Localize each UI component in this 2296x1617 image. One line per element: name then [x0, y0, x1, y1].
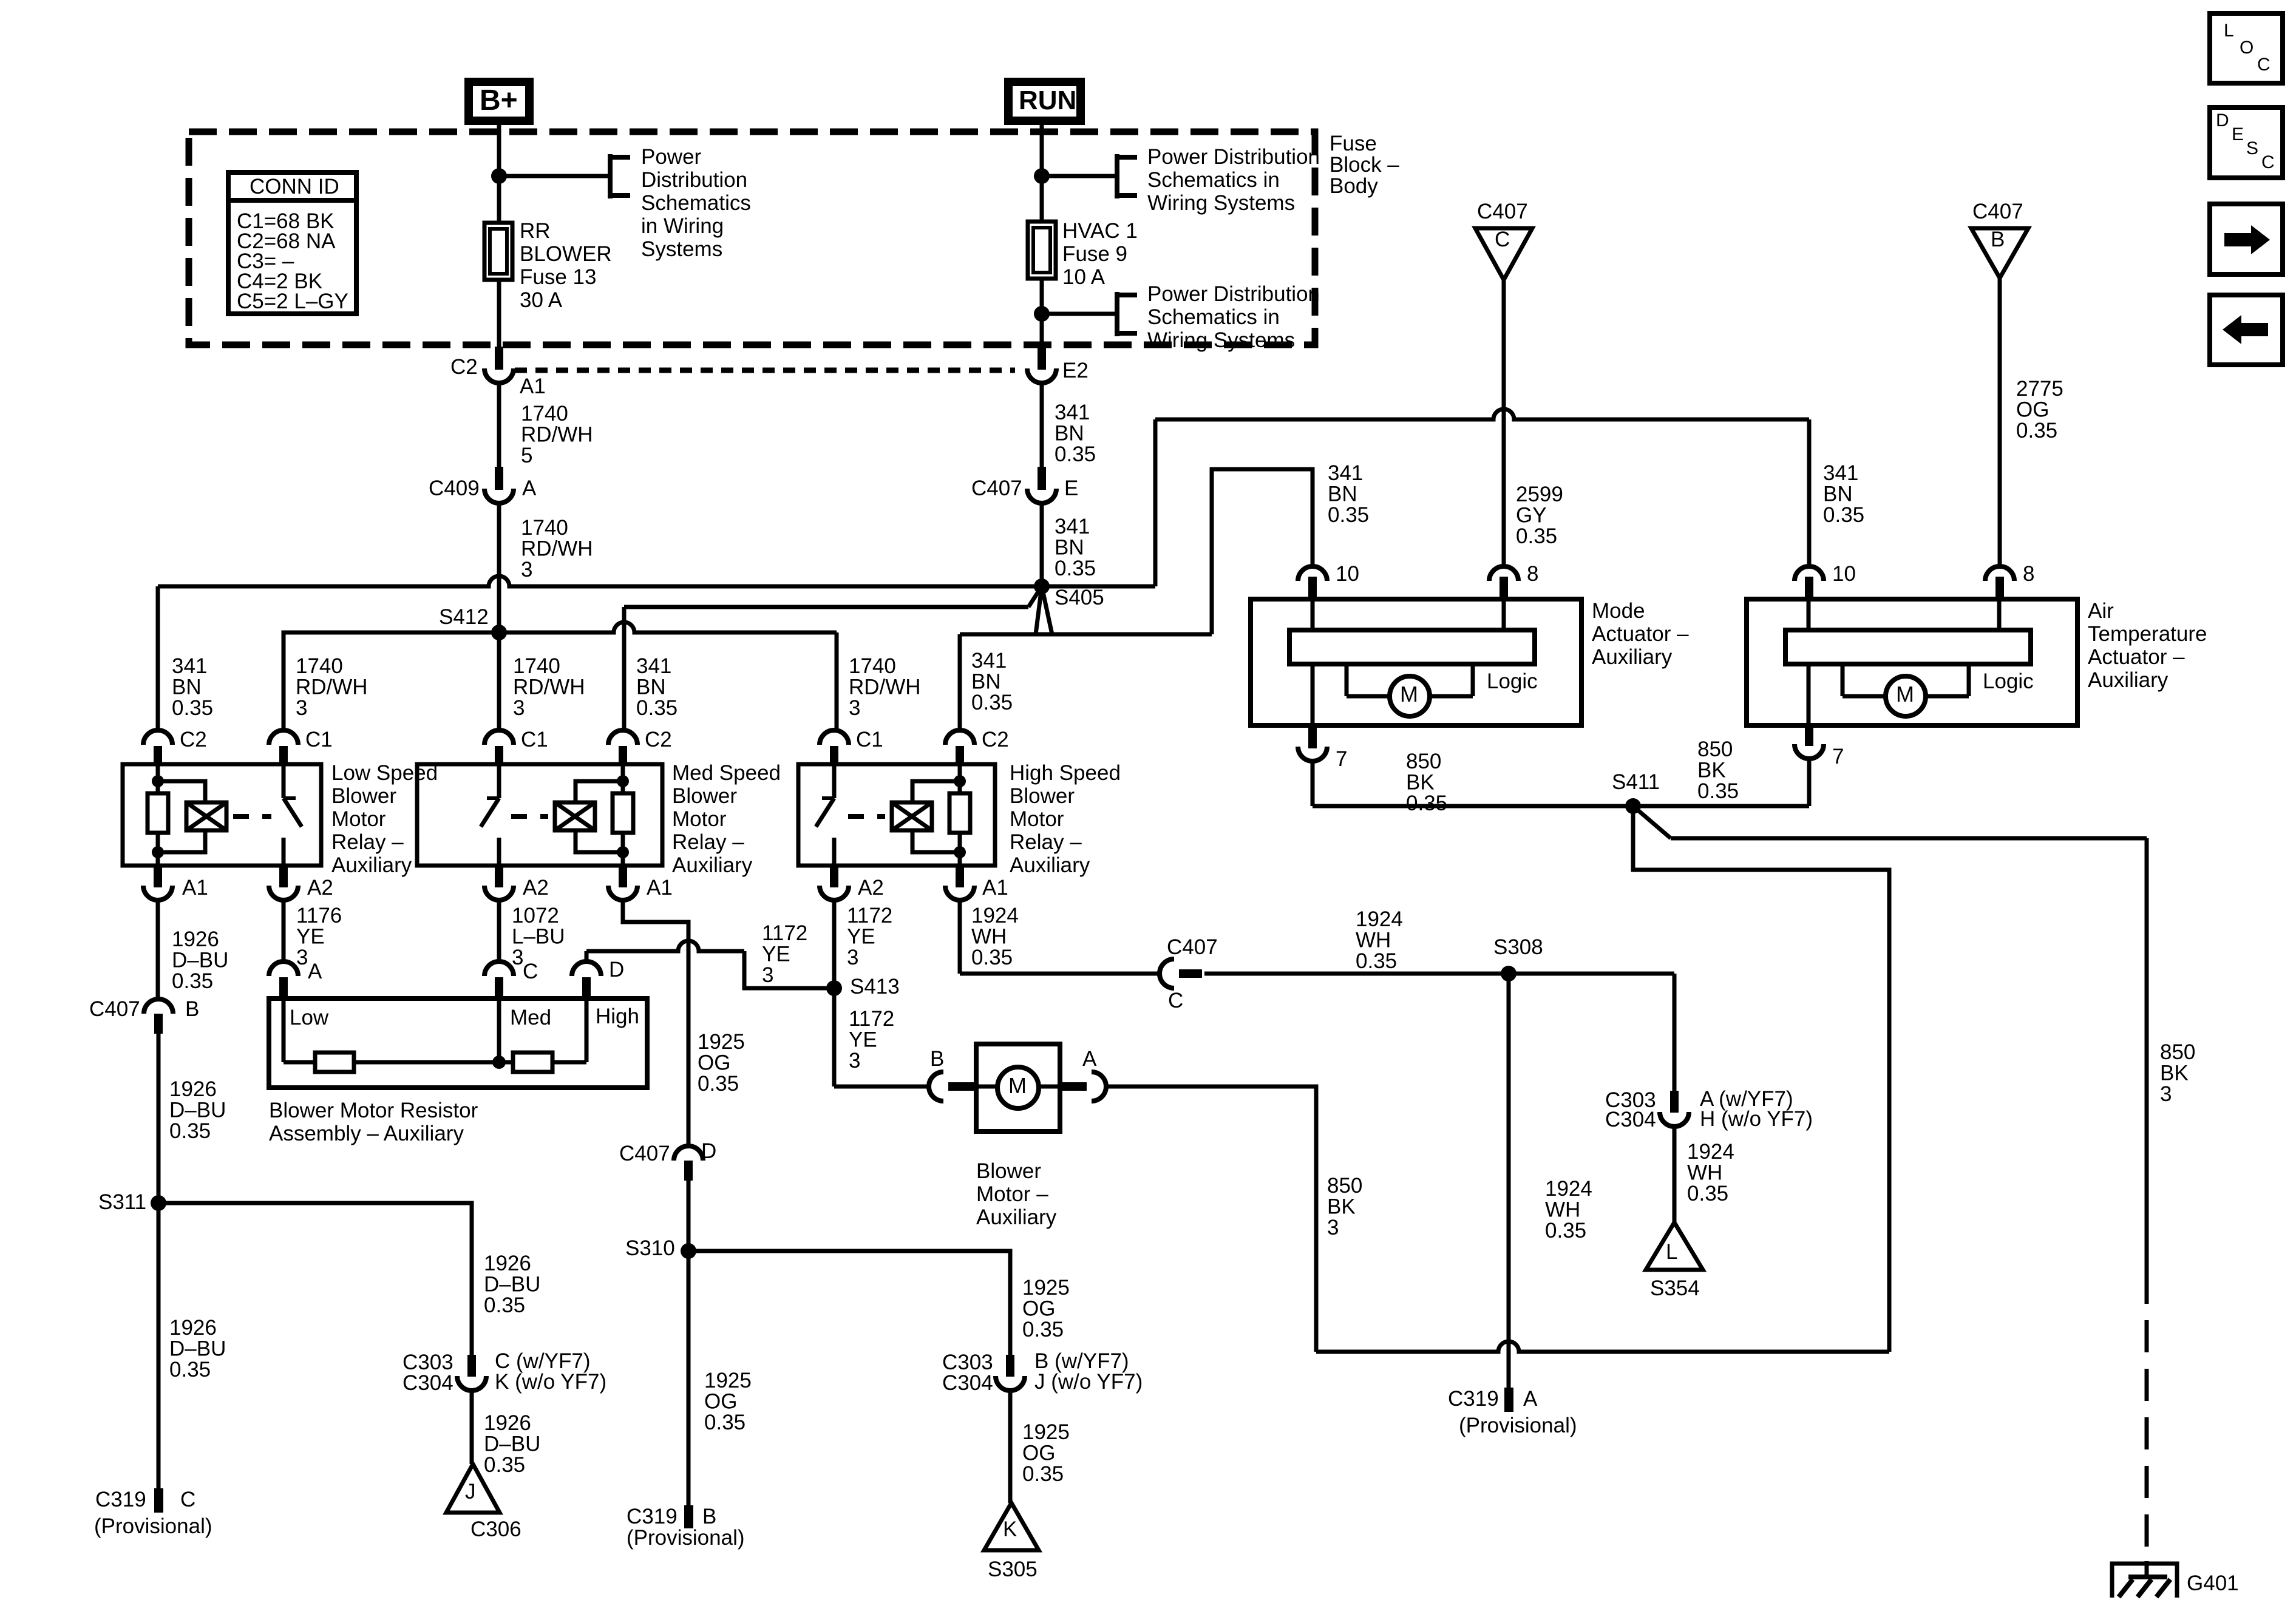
- svg-text:Air: Air: [2088, 599, 2114, 623]
- svg-text:0.35: 0.35: [1823, 503, 1864, 527]
- svg-text:C407: C407: [1167, 935, 1218, 959]
- svg-text:RD/WH: RD/WH: [296, 676, 368, 699]
- svg-text:S354: S354: [1650, 1276, 1700, 1300]
- svg-text:L: L: [2224, 21, 2234, 41]
- wire riser to y691: [1153, 419, 1158, 586]
- svg-text:Power Distribution: Power Distribution: [1147, 282, 1320, 306]
- svg-text:Power Distribution: Power Distribution: [1147, 145, 1320, 169]
- svg-text:D: D: [609, 958, 624, 981]
- junction on B+ wire: [491, 168, 507, 184]
- svg-text:HVAC 1: HVAC 1: [1062, 219, 1138, 243]
- svg-text:0.35: 0.35: [169, 1119, 211, 1143]
- svg-text:3: 3: [849, 696, 860, 720]
- wire C407D to S310: [687, 1180, 691, 1251]
- svg-text:S413: S413: [850, 975, 900, 998]
- svg-text:0.35: 0.35: [2016, 419, 2057, 442]
- splice ref triangle J: [446, 1464, 500, 1513]
- svg-text:GY: GY: [1516, 504, 1547, 527]
- wire 341 BN 0.35 E2 to C407E: [1040, 383, 1044, 469]
- relay K1 coil element: [186, 802, 226, 830]
- svg-text:0.35: 0.35: [1356, 949, 1397, 973]
- svg-text:C: C: [523, 960, 538, 983]
- svg-text:Temperature: Temperature: [2088, 622, 2207, 646]
- svg-text:Auxiliary: Auxiliary: [331, 853, 412, 877]
- svg-text:7: 7: [1336, 747, 1347, 771]
- svg-text:Blower: Blower: [672, 784, 737, 808]
- svg-text:0.35: 0.35: [1687, 1182, 1728, 1205]
- svg-text:1926: 1926: [169, 1077, 217, 1101]
- svg-text:D–BU: D–BU: [169, 1099, 226, 1122]
- svg-text:OG: OG: [1022, 1297, 1055, 1321]
- connector C2 pin A1: [495, 347, 503, 370]
- relay K3 top connector C1: [820, 730, 849, 745]
- svg-text:A: A: [522, 476, 537, 500]
- svg-text:Actuator –: Actuator –: [1592, 622, 1689, 646]
- svg-text:RR: RR: [520, 219, 551, 243]
- svg-text:Blower Motor Resistor: Blower Motor Resistor: [269, 1099, 478, 1122]
- svg-text:341: 341: [1328, 461, 1363, 485]
- blower motor connector A: [1059, 1082, 1087, 1091]
- wire S308 down to C319 A: [1507, 974, 1511, 1388]
- svg-text:Med: Med: [510, 1006, 551, 1029]
- relay K1 bottom connector A1: [154, 866, 162, 887]
- svg-text:C407: C407: [1972, 200, 2023, 223]
- svg-text:C: C: [180, 1488, 195, 1511]
- svg-text:1924: 1924: [1545, 1177, 1592, 1201]
- wire 850 BK 3 dashed section: [2145, 1272, 2149, 1561]
- svg-text:Fuse: Fuse: [1330, 132, 1377, 155]
- relay K1 Low Speed Blower Motor Relay box: [123, 764, 321, 866]
- svg-text:850: 850: [1697, 737, 1733, 761]
- wire S310 down to C319 B: [687, 1251, 691, 1505]
- svg-text:D–BU: D–BU: [484, 1432, 540, 1456]
- relay K2 coil element: [555, 802, 595, 830]
- wire C407C to S308: [1204, 972, 1674, 976]
- svg-text:341: 341: [971, 649, 1007, 673]
- svg-text:Assembly – Auxiliary: Assembly – Auxiliary: [269, 1122, 464, 1145]
- svg-text:3: 3: [513, 696, 525, 720]
- svg-text:C: C: [2261, 152, 2275, 172]
- svg-text:C319: C319: [95, 1488, 146, 1511]
- relay K3 High Speed Blower Motor Relay box: [798, 764, 995, 866]
- relay K2 bottom connector A2: [495, 866, 503, 887]
- legend LOC box: [2210, 13, 2283, 83]
- svg-text:OG: OG: [2016, 398, 2049, 422]
- wire branch to power distribution ref 1: [499, 174, 610, 178]
- wire 341 BN to Low C2: [156, 586, 160, 731]
- wire down to High C2: [958, 634, 962, 731]
- air temp actuator pin 8 connector: [1985, 566, 2014, 581]
- blower motor connector B: [929, 1072, 943, 1101]
- wire S311 right to C303 C/K: [158, 1203, 472, 1356]
- splice ref triangle L: [1646, 1222, 1703, 1270]
- blower motor resistor assembly box: [269, 998, 647, 1088]
- svg-text:10: 10: [1336, 562, 1359, 586]
- wire fuse9 to E2 connector: [1040, 278, 1044, 351]
- wire S412 down to Med C1: [497, 632, 501, 731]
- svg-text:C: C: [2257, 55, 2271, 75]
- resistor tap connector D: [572, 961, 601, 976]
- wire 341 BN down to AirTemp pin10: [1807, 419, 1812, 568]
- svg-text:C407: C407: [619, 1142, 670, 1165]
- junction on RUN wire upper: [1034, 168, 1050, 184]
- relay K1 bottom connector A2: [279, 866, 288, 887]
- legend next arrow box: [2210, 204, 2283, 274]
- connector C407 pin E: [1038, 467, 1046, 490]
- svg-text:Motor –: Motor –: [976, 1182, 1048, 1206]
- svg-text:Motor: Motor: [331, 807, 386, 831]
- svg-text:Auxiliary: Auxiliary: [1592, 645, 1673, 669]
- relay K2 internal junction bottom: [617, 846, 629, 858]
- svg-text:RD/WH: RD/WH: [849, 676, 921, 699]
- svg-text:C1: C1: [521, 728, 548, 751]
- svg-text:1925: 1925: [704, 1369, 752, 1392]
- svg-text:341: 341: [636, 654, 671, 678]
- svg-text:1740: 1740: [296, 654, 343, 678]
- mode actuator box with motor and logic: [1251, 599, 1581, 725]
- wire S308 corner down to C303 A/H: [1673, 974, 1677, 1092]
- connector ref triangle C407-B: [1971, 228, 2028, 278]
- relay K1 internal junction top: [152, 775, 164, 787]
- wire motor A to S411 return: [1106, 1086, 1316, 1352]
- svg-text:Mode: Mode: [1592, 599, 1645, 623]
- svg-text:WH: WH: [1687, 1161, 1722, 1185]
- splice S310: [681, 1243, 696, 1259]
- svg-text:0.35: 0.35: [636, 696, 678, 720]
- wire 341 BN 0.35 C407E to S405: [1040, 503, 1044, 586]
- CONN ID table: [228, 172, 356, 314]
- svg-text:High: High: [596, 1005, 639, 1028]
- relay K1 coil branch: [158, 781, 205, 802]
- wire med A2 to resistor C: [497, 900, 501, 962]
- svg-text:L–BU: L–BU: [512, 925, 565, 949]
- wire mode pin7 to S411 to airtemp pin7: [1313, 804, 1809, 808]
- svg-text:3: 3: [521, 558, 532, 581]
- svg-text:10 A: 10 A: [1062, 265, 1106, 289]
- svg-text:C2: C2: [982, 728, 1009, 751]
- resistor assembly internal wires: [282, 998, 286, 1062]
- svg-text:C407: C407: [971, 476, 1022, 500]
- wire branch to power distribution ref 3: [1042, 312, 1117, 316]
- relay K3 switch: [832, 764, 837, 798]
- svg-text:1172: 1172: [762, 921, 807, 945]
- svg-text:0.35: 0.35: [1055, 442, 1096, 466]
- relay K1 top connector C1: [269, 730, 298, 745]
- svg-text:0.35: 0.35: [971, 691, 1013, 714]
- svg-text:0.35: 0.35: [172, 696, 213, 720]
- svg-text:1176: 1176: [296, 904, 342, 927]
- svg-text:1072: 1072: [512, 904, 559, 927]
- svg-text:D–BU: D–BU: [172, 949, 228, 972]
- svg-text:C319: C319: [627, 1505, 678, 1528]
- svg-text:Block –: Block –: [1330, 153, 1399, 177]
- svg-text:Wiring Systems: Wiring Systems: [1147, 328, 1295, 352]
- relay K3 coil branch: [912, 781, 960, 802]
- svg-text:A: A: [1082, 1047, 1097, 1071]
- svg-text:0.35: 0.35: [698, 1072, 739, 1096]
- wire S311 down to C319 C: [157, 1203, 161, 1488]
- svg-text:1926: 1926: [169, 1316, 217, 1340]
- wire B+ to fuse: [497, 125, 501, 225]
- connector C319 pin C terminal: [154, 1488, 163, 1513]
- connector C409 pin A: [495, 467, 503, 490]
- svg-text:341: 341: [1055, 515, 1090, 538]
- blower motor box: [976, 1044, 1060, 1131]
- svg-text:RD/WH: RD/WH: [513, 676, 585, 699]
- svg-text:1926: 1926: [172, 927, 219, 951]
- relay K2 switch: [497, 764, 501, 798]
- wire 2775 OG triangle to AirTemp pin8: [1998, 278, 2002, 568]
- svg-text:0.35: 0.35: [704, 1411, 746, 1434]
- svg-text:B: B: [702, 1505, 716, 1528]
- svg-text:C304: C304: [402, 1371, 453, 1395]
- svg-text:1924: 1924: [1687, 1140, 1734, 1164]
- relay K2 top connector C1: [484, 730, 514, 745]
- relay K1 coil stub wires: [156, 764, 160, 793]
- svg-text:in Wiring: in Wiring: [641, 214, 724, 238]
- svg-text:A2: A2: [858, 876, 884, 900]
- svg-text:Body: Body: [1330, 174, 1378, 198]
- svg-text:0.35: 0.35: [1697, 779, 1739, 803]
- svg-text:B: B: [1991, 228, 2005, 251]
- svg-text:C409: C409: [429, 476, 480, 500]
- svg-text:M: M: [1400, 682, 1418, 707]
- svg-text:0.35: 0.35: [484, 1293, 525, 1317]
- svg-text:Actuator –: Actuator –: [2088, 645, 2185, 669]
- wire C303 to triangle K: [1008, 1391, 1013, 1503]
- svg-text:OG: OG: [698, 1051, 730, 1075]
- svg-text:YE: YE: [762, 943, 790, 966]
- relay K3 coil resistor: [949, 793, 970, 833]
- relay K3 bottom connector A2: [830, 866, 838, 887]
- svg-text:J: J: [465, 1480, 476, 1503]
- relay K3 internal junction bottom: [954, 846, 966, 858]
- wire riser to Mode pin10: [1212, 469, 1313, 634]
- svg-text:E: E: [2232, 124, 2244, 144]
- svg-text:G401: G401: [2187, 1571, 2239, 1595]
- svg-text:(Provisional): (Provisional): [94, 1514, 212, 1538]
- svg-text:K: K: [1003, 1517, 1017, 1541]
- svg-text:1926: 1926: [484, 1252, 531, 1275]
- svg-text:0.35: 0.35: [169, 1358, 211, 1381]
- svg-text:BN: BN: [1055, 422, 1084, 446]
- svg-text:Logic: Logic: [1487, 670, 1538, 693]
- power node RUN box: [1008, 82, 1081, 121]
- wire main 341 bus y966: [158, 576, 1155, 586]
- svg-text:A2: A2: [523, 876, 549, 900]
- svg-text:YE: YE: [847, 925, 875, 949]
- resistor tap connector A: [269, 961, 298, 976]
- svg-text:1740: 1740: [849, 654, 896, 678]
- svg-text:BN: BN: [636, 676, 666, 699]
- svg-text:B: B: [185, 997, 199, 1021]
- svg-text:850: 850: [1406, 750, 1441, 773]
- mode actuator pin 7 connector: [1308, 725, 1317, 748]
- svg-text:3: 3: [849, 1049, 860, 1073]
- wire high A1 down: [958, 900, 962, 974]
- wire branch to power distribution ref 2: [1042, 174, 1117, 178]
- svg-text:0.35: 0.35: [1516, 524, 1557, 548]
- svg-text:850: 850: [2160, 1040, 2195, 1064]
- svg-text:Fuse 9: Fuse 9: [1062, 242, 1127, 266]
- wire 341 bus y691: [1155, 409, 1809, 419]
- connector C407 pin B low: [144, 999, 173, 1014]
- wire S405 branch y1045: [1036, 586, 1042, 634]
- svg-text:WH: WH: [1356, 929, 1391, 952]
- relay K3 internal junction top: [954, 775, 966, 787]
- fuse F9 HVAC 1: [1028, 222, 1056, 279]
- svg-text:BK: BK: [1406, 771, 1435, 795]
- splice S405: [1034, 578, 1050, 594]
- connector C319 pin B terminal: [684, 1505, 693, 1528]
- svg-text:E: E: [1064, 476, 1078, 500]
- svg-text:A1: A1: [647, 876, 673, 900]
- splice S311: [151, 1195, 166, 1211]
- reference bracket 1: [608, 154, 613, 198]
- svg-text:C5=2 L–GY: C5=2 L–GY: [237, 290, 348, 313]
- splice S308: [1501, 966, 1517, 981]
- svg-text:C319: C319: [1448, 1387, 1499, 1411]
- relay K2 Med Speed Blower Motor Relay box: [417, 764, 662, 866]
- svg-text:BN: BN: [971, 670, 1001, 694]
- connector C319 pin A terminal: [1504, 1388, 1513, 1412]
- svg-text:BLOWER: BLOWER: [520, 242, 612, 266]
- svg-text:S310: S310: [625, 1236, 675, 1260]
- wire S411 to ground run: [1633, 806, 1671, 838]
- svg-text:S: S: [2246, 138, 2258, 158]
- relay K2 coil branch: [576, 781, 623, 802]
- connector C303/C304 pin B/J: [1006, 1355, 1014, 1377]
- svg-text:341: 341: [1823, 461, 1858, 485]
- svg-text:3: 3: [762, 963, 773, 987]
- svg-text:C306: C306: [470, 1517, 521, 1541]
- svg-text:Wiring Systems: Wiring Systems: [1147, 191, 1295, 215]
- legend DESC box: [2210, 107, 2283, 178]
- svg-text:H (w/o YF7): H (w/o YF7): [1700, 1107, 1813, 1131]
- svg-text:Systems: Systems: [641, 237, 722, 261]
- relay K3 bottom connector A1: [956, 866, 964, 887]
- svg-text:1925: 1925: [1022, 1420, 1070, 1444]
- svg-text:2775: 2775: [2016, 377, 2063, 401]
- relay K2 top connector C2: [608, 730, 637, 745]
- svg-text:Auxiliary: Auxiliary: [976, 1205, 1057, 1229]
- air temperature actuator box with motor and logic: [1747, 599, 2077, 725]
- svg-text:0.35: 0.35: [1545, 1219, 1586, 1242]
- svg-text:WH: WH: [971, 925, 1007, 949]
- svg-text:M: M: [1008, 1073, 1027, 1098]
- wire S413 to motor B: [834, 1085, 929, 1089]
- svg-text:0.35: 0.35: [1055, 557, 1096, 580]
- wire C303 to triangle L: [1673, 1127, 1677, 1222]
- wire low A2 to resistor A: [282, 900, 286, 962]
- svg-text:3: 3: [296, 696, 307, 720]
- svg-text:Logic: Logic: [1983, 670, 2034, 693]
- svg-text:8: 8: [2023, 562, 2034, 586]
- svg-text:(Provisional): (Provisional): [1459, 1414, 1577, 1437]
- svg-text:Motor: Motor: [672, 807, 727, 831]
- svg-text:0.35: 0.35: [1406, 792, 1447, 815]
- connector C303/C304 pin C/K: [467, 1355, 476, 1377]
- svg-text:3: 3: [847, 946, 858, 969]
- svg-text:C407: C407: [1477, 200, 1528, 223]
- wire med A1 to 1925 OG riser: [623, 900, 688, 1147]
- svg-text:C: C: [1168, 989, 1183, 1012]
- wire high A2 to S413 to motor B: [832, 900, 837, 1086]
- fuse F13 RR BLOWER: [484, 223, 512, 280]
- svg-text:D: D: [701, 1139, 716, 1163]
- svg-text:3: 3: [1327, 1216, 1339, 1239]
- svg-text:BK: BK: [2160, 1062, 2189, 1085]
- svg-text:341: 341: [172, 654, 207, 678]
- wire fuse13 to C2 connector: [497, 280, 501, 351]
- connector C407 pin D inline: [674, 1146, 703, 1161]
- svg-text:Schematics in: Schematics in: [1147, 305, 1280, 329]
- svg-text:BN: BN: [172, 676, 202, 699]
- svg-text:10: 10: [1832, 562, 1856, 586]
- svg-text:3: 3: [296, 946, 308, 969]
- svg-text:Blower: Blower: [331, 784, 396, 808]
- svg-text:D–BU: D–BU: [484, 1273, 540, 1297]
- relay K3 coil element: [892, 802, 932, 830]
- connector ref triangle C407-C: [1475, 228, 1532, 280]
- svg-text:Schematics: Schematics: [641, 191, 751, 215]
- svg-text:C407: C407: [89, 997, 140, 1021]
- splice S411: [1625, 798, 1641, 814]
- blower motor M symbol: [997, 1067, 1039, 1108]
- svg-text:Blower: Blower: [976, 1159, 1041, 1183]
- svg-text:S411: S411: [1612, 770, 1660, 794]
- svg-text:850: 850: [1327, 1174, 1362, 1198]
- svg-text:RD/WH: RD/WH: [521, 537, 593, 561]
- wire S412 right to High C1: [499, 622, 837, 632]
- relay K2 linkage dashes: [511, 814, 548, 819]
- svg-text:Relay –: Relay –: [331, 830, 404, 854]
- svg-text:0.35: 0.35: [484, 1453, 525, 1477]
- air temp actuator pin 10 connector: [1795, 566, 1824, 581]
- svg-text:Blower: Blower: [1010, 784, 1075, 808]
- svg-text:0.35: 0.35: [172, 969, 213, 993]
- svg-text:O: O: [2240, 38, 2254, 58]
- relay K1 switch: [282, 764, 286, 798]
- fuse block dashed boundary: [189, 132, 1315, 345]
- svg-text:M: M: [1896, 682, 1914, 707]
- svg-text:B+: B+: [480, 84, 518, 117]
- wire C407B to S311: [157, 1033, 161, 1203]
- wire S412 left to Low C1: [284, 632, 499, 731]
- svg-text:J (w/o YF7): J (w/o YF7): [1034, 1370, 1143, 1394]
- wire C303 to triangle J: [470, 1391, 474, 1464]
- reference bracket 3: [1115, 292, 1119, 336]
- svg-text:BN: BN: [1055, 536, 1084, 560]
- relay K2 coil stub wires: [621, 764, 625, 793]
- svg-text:WH: WH: [1545, 1198, 1580, 1222]
- svg-text:BN: BN: [1328, 483, 1357, 506]
- svg-text:1740: 1740: [513, 654, 560, 678]
- svg-text:S305: S305: [988, 1558, 1038, 1581]
- svg-text:Auxiliary: Auxiliary: [672, 853, 753, 877]
- svg-text:S412: S412: [439, 605, 489, 629]
- svg-text:0.35: 0.35: [1022, 1318, 1064, 1341]
- svg-text:1925: 1925: [1022, 1276, 1070, 1300]
- relay K3 coil stub wires: [958, 764, 962, 793]
- svg-text:Low: Low: [290, 1006, 329, 1029]
- relay K1 top connector C2: [143, 730, 172, 745]
- svg-text:0.35: 0.35: [971, 946, 1013, 969]
- svg-text:8: 8: [1527, 562, 1538, 586]
- wire 2599 GY triangle to Mode pin8: [1502, 280, 1506, 568]
- svg-text:2599: 2599: [1516, 483, 1563, 506]
- svg-text:Auxiliary: Auxiliary: [2088, 668, 2169, 692]
